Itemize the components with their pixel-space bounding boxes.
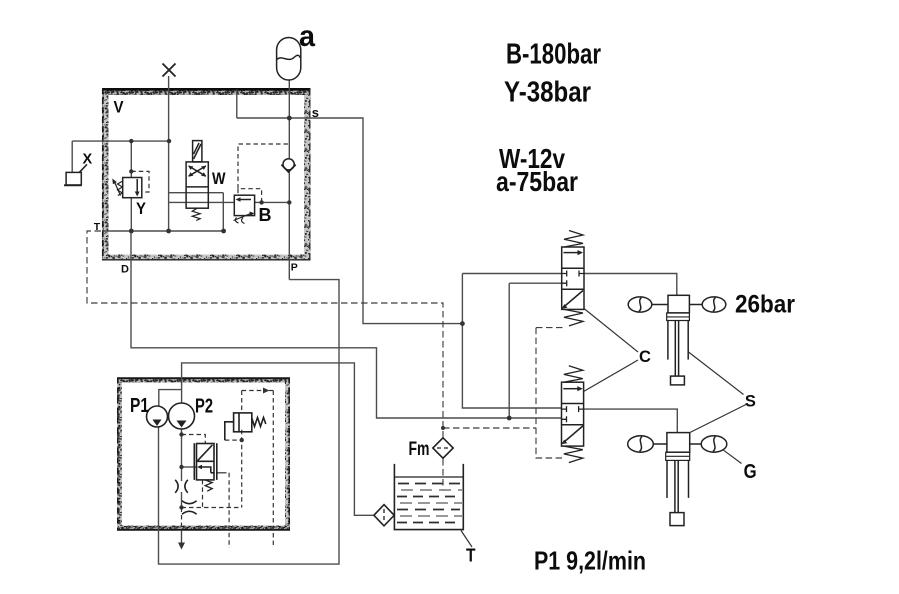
svg-text:D: D (121, 264, 129, 276)
svg-text:B: B (259, 204, 272, 225)
svg-text:a-75bar: a-75bar (496, 166, 578, 197)
svg-text:26bar: 26bar (735, 291, 795, 319)
svg-text:P: P (291, 262, 298, 274)
svg-text:P1 9,2l/min: P1 9,2l/min (534, 546, 646, 576)
svg-text:Y: Y (136, 199, 147, 218)
svg-text:s: s (312, 105, 319, 120)
svg-text:W: W (212, 169, 226, 188)
svg-text:P1: P1 (130, 395, 149, 417)
svg-text:V: V (114, 98, 125, 117)
svg-text:B-180bar: B-180bar (506, 39, 601, 71)
svg-text:P2: P2 (195, 396, 213, 418)
svg-text:X: X (83, 152, 93, 168)
svg-text:T: T (466, 545, 476, 566)
svg-text:S: S (745, 392, 756, 410)
svg-text:T: T (94, 221, 101, 233)
svg-text:G: G (744, 461, 757, 483)
svg-text:Fm: Fm (409, 439, 430, 460)
svg-text:C: C (639, 348, 651, 366)
svg-text:Y-38bar: Y-38bar (504, 77, 591, 109)
svg-text:a: a (299, 20, 315, 53)
